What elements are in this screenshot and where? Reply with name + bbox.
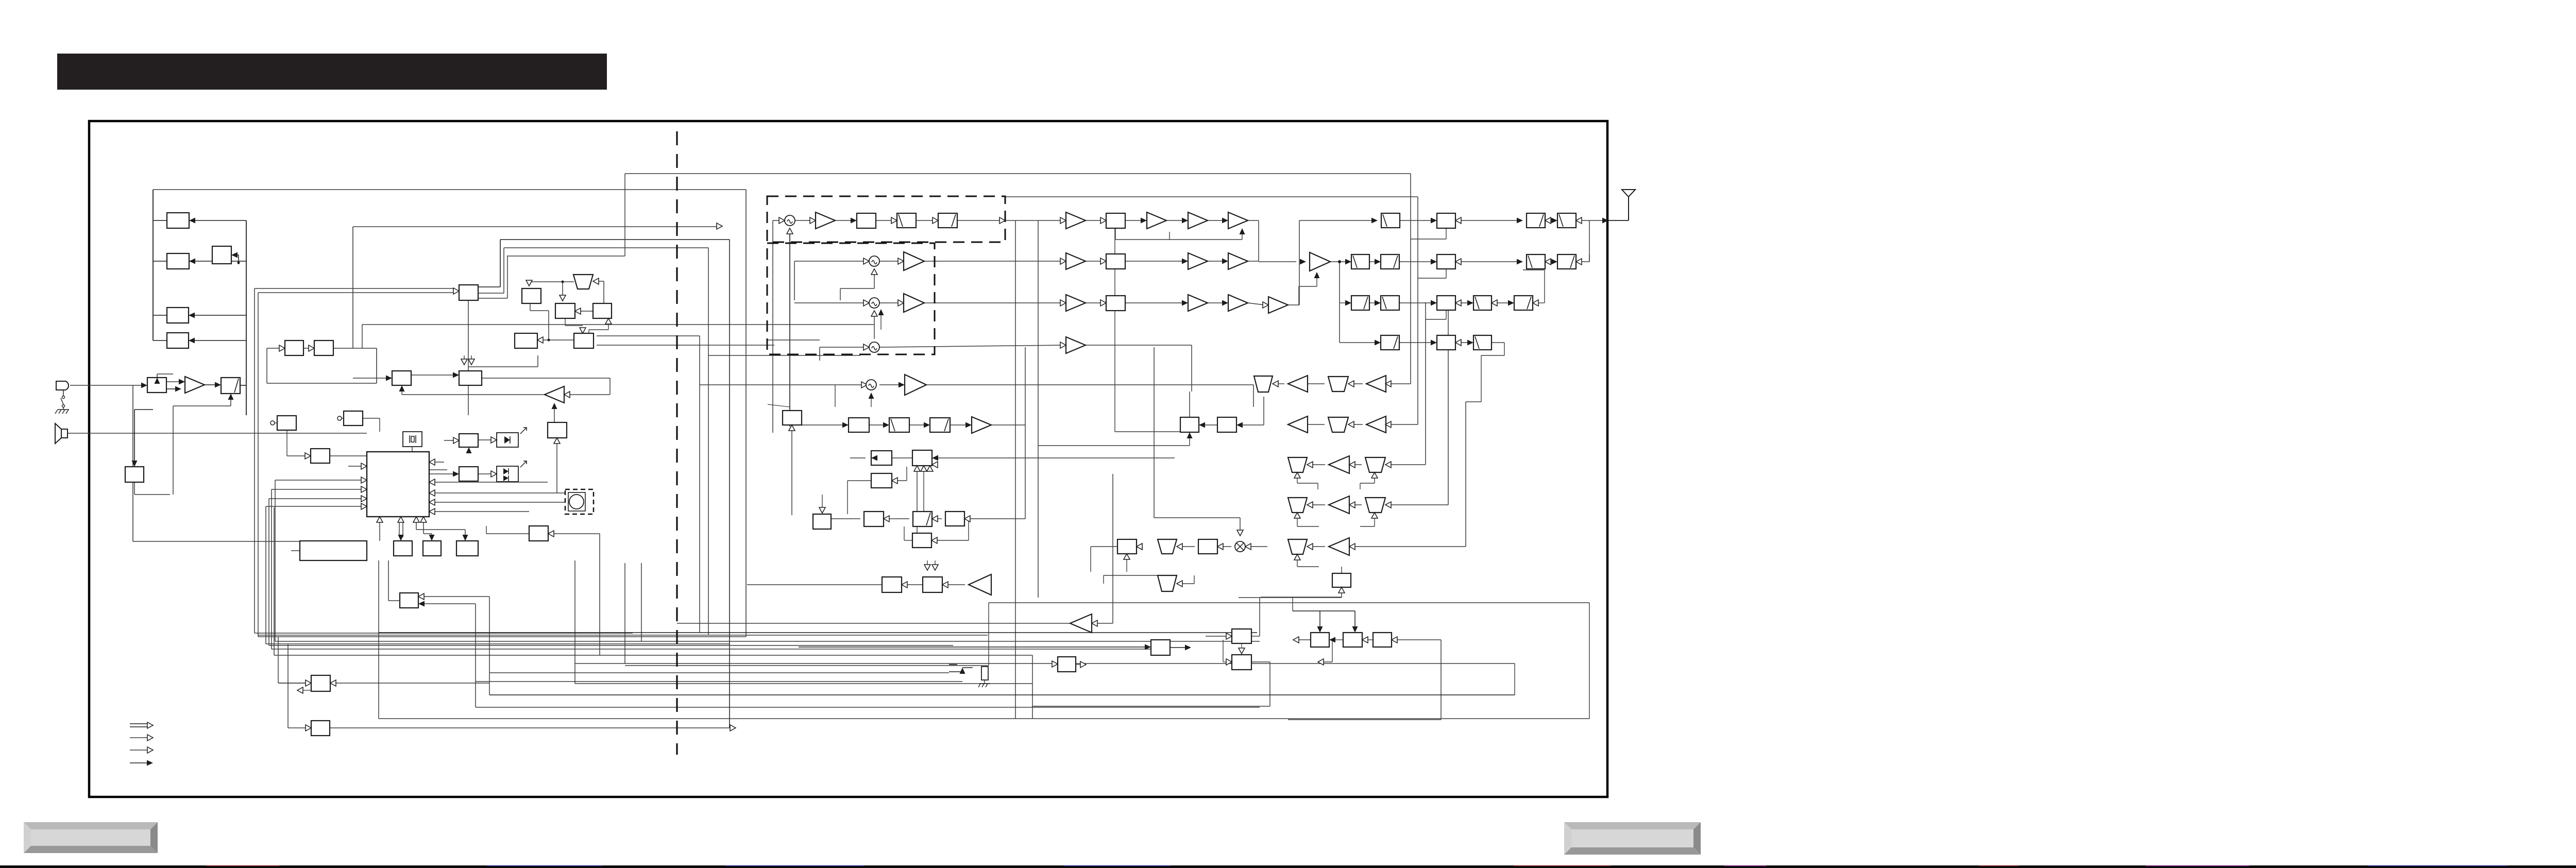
amplifier if1 — [905, 375, 926, 395]
filter S2b — [913, 512, 932, 526]
wire — [486, 526, 487, 534]
wire — [134, 482, 135, 495]
arrow — [819, 507, 825, 513]
wire — [767, 339, 820, 341]
wire — [1103, 575, 1104, 584]
wire — [1355, 464, 1362, 465]
open arrowhead — [892, 478, 897, 484]
open arrowhead mid — [717, 223, 722, 229]
wire pin — [429, 469, 447, 470]
wire — [581, 311, 593, 312]
arrowhead — [1508, 300, 1514, 306]
wire — [1411, 239, 1446, 240]
wire — [63, 407, 64, 410]
wire vertical x2160 — [1112, 474, 1113, 623]
open arrowhead — [891, 217, 897, 224]
open arrowhead — [526, 280, 532, 286]
wire vertical x1213 — [624, 563, 625, 663]
wire — [1399, 302, 1433, 303]
open arrowhead — [1455, 300, 1461, 306]
wire — [948, 584, 965, 585]
block det1 — [1117, 539, 1137, 554]
wire — [1086, 302, 1103, 303]
wire — [411, 375, 455, 376]
wire — [1335, 639, 1343, 640]
block D5 — [574, 333, 594, 348]
wire — [1248, 261, 1259, 262]
wire — [1169, 232, 1170, 240]
arrowhead pa bias — [1314, 272, 1320, 278]
block detector — [1437, 335, 1455, 350]
arrowhead — [1467, 300, 1473, 306]
wire — [991, 424, 1025, 426]
block G1 trimmer — [277, 416, 296, 430]
arrowhead M3 in — [878, 309, 884, 315]
wire vertical x2738 — [1410, 174, 1411, 384]
open arrowhead — [1052, 661, 1058, 667]
mixer det X — [1235, 541, 1245, 552]
arrow — [921, 466, 927, 471]
block A2 bias — [548, 422, 567, 438]
arrow — [1145, 644, 1151, 650]
arrowhead — [189, 218, 195, 224]
wire — [1446, 228, 1447, 239]
wire lo stub — [835, 385, 836, 407]
open arrowhead — [1177, 581, 1182, 587]
legend open arrowhead — [147, 735, 153, 741]
pin arrow IC1 bottom — [420, 517, 427, 522]
wire — [423, 522, 424, 534]
wire — [907, 584, 923, 585]
filter apc3 — [1473, 296, 1492, 310]
arrowhead — [1182, 218, 1188, 224]
wire bundle y1323 — [476, 681, 962, 682]
open arrowhead — [580, 328, 586, 333]
block connector strip — [300, 541, 367, 560]
arrowhead — [899, 382, 905, 388]
wire — [1297, 566, 1319, 567]
wire — [133, 385, 144, 386]
wire — [1399, 342, 1433, 343]
arrowhead — [141, 383, 147, 388]
wire — [548, 311, 549, 340]
wire — [1090, 547, 1091, 572]
open arrowhead — [453, 288, 459, 294]
amplifier rx4 — [1366, 416, 1386, 433]
wire — [1125, 220, 1143, 221]
wire vertical x1448 — [745, 190, 747, 637]
open arrowhead — [1338, 587, 1345, 593]
open arrowhead — [933, 217, 938, 224]
wire — [1243, 424, 1264, 426]
wire — [1374, 478, 1375, 483]
wire — [1308, 424, 1325, 425]
mixer M1 — [785, 215, 795, 226]
wire — [267, 348, 279, 349]
wire — [205, 384, 217, 385]
wire — [342, 418, 344, 419]
block pa module — [1437, 254, 1455, 269]
block AB3 — [1373, 633, 1392, 647]
wire — [874, 316, 875, 339]
open arrowhead — [1060, 342, 1066, 348]
arrowhead — [386, 376, 392, 381]
wire — [1391, 504, 1448, 505]
wire — [789, 407, 790, 425]
input port circle — [270, 421, 275, 425]
wire — [819, 347, 820, 361]
arrowhead — [871, 455, 877, 461]
bus vertical x516 — [265, 506, 266, 644]
wire — [917, 471, 918, 533]
open arrowhead — [491, 437, 497, 443]
wire — [1086, 261, 1103, 262]
arrowhead — [1431, 340, 1437, 346]
arrowhead — [429, 535, 435, 541]
arrowhead — [228, 394, 234, 400]
arrow — [461, 359, 467, 365]
wire — [1461, 261, 1519, 262]
wire — [153, 340, 167, 341]
arrowhead — [1329, 637, 1335, 643]
arrowhead M5 lo — [869, 393, 874, 399]
arrowhead — [851, 218, 857, 224]
open arrowhead — [575, 308, 581, 314]
open arrowhead y1413 — [730, 725, 736, 731]
wire — [1208, 220, 1225, 221]
wire — [1340, 302, 1348, 303]
wire — [303, 690, 311, 691]
wire vertical x735 — [378, 560, 379, 719]
wire mixer M1 lo input — [789, 234, 790, 427]
wire — [157, 373, 173, 375]
wire bundle y1395 — [379, 718, 1589, 719]
filter rx1 — [1328, 377, 1348, 392]
wire — [486, 533, 529, 534]
open arrowhead — [1545, 259, 1551, 265]
filter funnel T1 — [573, 275, 593, 289]
switch S2 — [949, 665, 973, 672]
open arrowhead — [1226, 633, 1232, 639]
arrow — [1294, 513, 1300, 518]
open arrowhead — [1385, 421, 1391, 428]
arrowhead — [842, 422, 849, 428]
wire AA top stub — [1341, 567, 1342, 573]
wire — [529, 282, 530, 283]
wire — [303, 348, 309, 349]
wire bundle y1288 — [575, 663, 1515, 664]
arrow out — [1318, 659, 1324, 665]
wire — [1461, 302, 1470, 303]
open arrowhead — [1100, 300, 1106, 306]
filter pll — [1158, 575, 1177, 591]
amplifier mod10 — [1066, 337, 1086, 353]
wire — [938, 457, 1175, 458]
wire — [1251, 546, 1267, 547]
amplifier audio out — [1070, 614, 1092, 633]
block vco 1 — [285, 341, 303, 355]
filter rx2 — [1328, 417, 1348, 432]
microphone MIC1 — [56, 381, 69, 390]
wire vertical x1971 — [1015, 220, 1016, 719]
wire — [424, 596, 489, 597]
wire — [1189, 438, 1190, 446]
wire step3 up x1213 — [624, 174, 625, 256]
arrowhead — [398, 535, 404, 541]
arrow — [1137, 543, 1142, 550]
arrowhead — [189, 338, 195, 344]
wire — [189, 340, 246, 341]
wire — [1330, 261, 1348, 262]
bus line h y1236 — [258, 636, 746, 637]
wire — [231, 254, 239, 256]
wire — [840, 288, 874, 289]
wire — [1297, 560, 1298, 567]
arrow — [468, 359, 474, 365]
wire — [189, 261, 246, 262]
filter apc1 — [1351, 296, 1369, 310]
amplifier rx7 — [1329, 538, 1349, 555]
wire loop top — [1104, 575, 1158, 576]
arrowhead — [1182, 300, 1188, 306]
wire — [1551, 261, 1554, 262]
wire — [1340, 342, 1377, 343]
wire long y1413 — [330, 727, 732, 728]
open arrowhead — [1385, 462, 1391, 468]
wire — [747, 584, 882, 585]
block keypad if — [167, 308, 189, 323]
wire — [874, 275, 875, 288]
wire — [1374, 518, 1375, 526]
dashed block modulator group A — [767, 196, 1005, 242]
bus vertical x522 — [268, 499, 269, 645]
block G2 ref osc — [344, 411, 363, 426]
wire bundle y1292 — [625, 665, 989, 666]
wire — [1299, 261, 1302, 262]
open arrowhead — [898, 300, 904, 306]
wire step1 v — [500, 240, 501, 287]
wire — [288, 727, 306, 728]
arrowhead — [453, 471, 459, 477]
arrow — [927, 466, 933, 471]
wire — [790, 424, 845, 426]
block vco 2 — [314, 341, 333, 355]
block S1 — [813, 514, 831, 529]
wire — [1369, 261, 1377, 262]
wire — [552, 533, 600, 534]
wire — [1297, 518, 1298, 526]
amplifier pa driver — [1310, 252, 1330, 271]
pin arrow IC1 left — [361, 486, 367, 492]
wire — [1115, 228, 1116, 240]
arrow out — [1185, 645, 1191, 651]
filter antenna3 — [1557, 213, 1576, 228]
open arrowhead — [1455, 339, 1461, 346]
wire — [1504, 343, 1505, 355]
wire — [927, 560, 928, 565]
wire — [1354, 611, 1355, 626]
wire — [599, 281, 604, 282]
filter block AF — [221, 378, 240, 394]
arrowhead — [155, 378, 160, 384]
wire step2 down x1375 — [708, 248, 709, 635]
arrowhead — [1236, 422, 1243, 428]
block power sw — [125, 467, 144, 482]
arrowhead — [1517, 218, 1523, 224]
wire bundle y1253 — [269, 645, 953, 646]
previous page button — [24, 822, 158, 853]
filter if3 — [930, 418, 950, 432]
open arrowhead — [932, 516, 938, 522]
wire top bus horizontal — [153, 189, 746, 190]
wire bundle y1373 — [476, 707, 1260, 708]
speaker SP1 — [55, 423, 67, 444]
wire — [278, 637, 279, 683]
filter tx2 — [897, 213, 916, 228]
wire — [1368, 639, 1373, 640]
filter rx5 — [1288, 498, 1307, 513]
block antenna switch — [1437, 213, 1455, 228]
arrowhead — [1222, 259, 1228, 264]
wire — [1426, 319, 1446, 320]
wire pin — [429, 473, 453, 474]
wire — [1299, 639, 1311, 640]
wire — [423, 533, 432, 534]
wire — [478, 439, 491, 440]
wire vertical x258 — [132, 385, 133, 541]
filter apc2 — [1381, 296, 1399, 310]
wire — [588, 330, 589, 333]
wire — [1299, 220, 1374, 221]
open arrowhead — [1217, 543, 1223, 550]
block AB1 — [1311, 633, 1329, 647]
arrowhead — [1345, 259, 1351, 265]
wire — [363, 418, 380, 419]
wire — [1126, 559, 1127, 572]
pin arrow IC1 bottom — [398, 517, 404, 522]
open arrowhead — [942, 582, 948, 588]
open arrowhead — [429, 490, 435, 496]
block AB2 — [1343, 633, 1362, 647]
next page button — [1564, 822, 1701, 855]
open arrowhead — [1533, 300, 1538, 306]
battery BT1 — [981, 667, 988, 680]
wire — [482, 378, 610, 379]
wire — [1091, 546, 1104, 547]
buzzer BZ1 dashed box — [565, 489, 594, 514]
wire vertical x2875 — [1481, 355, 1482, 402]
arrow — [914, 466, 920, 471]
wire — [820, 347, 866, 348]
wire — [904, 540, 912, 541]
open arrowhead — [1348, 381, 1354, 387]
wire — [589, 329, 608, 330]
arrowhead — [1467, 340, 1473, 346]
bottom page edge bar — [0, 865, 2576, 868]
block Z1 — [1151, 640, 1170, 655]
wire long — [334, 683, 489, 684]
wire — [1223, 546, 1231, 547]
wire — [435, 511, 529, 512]
wire — [1125, 302, 1184, 303]
wire — [795, 220, 812, 221]
wire — [556, 444, 557, 493]
block apc — [1437, 296, 1455, 310]
buzzer BZ1 — [568, 492, 585, 511]
wire D5 out upper — [597, 335, 700, 336]
wire — [1278, 383, 1284, 384]
wire — [287, 455, 307, 456]
wire — [1208, 302, 1225, 303]
block small regulator — [212, 246, 231, 264]
wire — [1115, 239, 1170, 240]
wire — [1360, 483, 1375, 484]
filter det fwd — [1381, 335, 1399, 350]
mixer M2 — [869, 256, 879, 266]
bus vertical x527 — [271, 489, 272, 649]
block det2 — [1198, 539, 1217, 554]
wire — [1582, 220, 1604, 221]
arrow — [1317, 626, 1323, 633]
legend open arrowhead — [147, 747, 153, 753]
wire step3 h — [507, 256, 625, 257]
wire — [1446, 310, 1447, 319]
wire — [1298, 286, 1299, 305]
arrowhead — [463, 535, 468, 541]
open arrowhead — [1385, 502, 1391, 508]
scan noise dashes — [206, 865, 2507, 866]
wire — [1397, 639, 1441, 640]
title bar — [57, 54, 607, 90]
open arrowhead — [902, 582, 907, 588]
wire — [1104, 546, 1117, 547]
wire — [475, 604, 476, 707]
wire — [1360, 483, 1361, 489]
open arrowhead — [537, 337, 543, 343]
wire — [1261, 597, 1342, 598]
bus line pair outer v — [254, 288, 255, 633]
block D2 — [555, 303, 575, 318]
wire — [1182, 583, 1194, 584]
wire U1 top — [1189, 392, 1190, 417]
wire — [1115, 431, 1180, 432]
wire — [1292, 598, 1293, 611]
open arrowhead — [787, 228, 793, 234]
wire to buzzer2 — [435, 502, 565, 503]
block H1 — [392, 371, 411, 385]
block AA1 — [1332, 573, 1351, 587]
bus line h y1250 — [266, 643, 730, 644]
microcontroller IC1 — [367, 452, 429, 517]
wire y1051 to connector strip — [133, 541, 300, 542]
wire crystal to IC — [412, 447, 413, 452]
arrow — [1352, 626, 1358, 633]
wire vertical x336 — [173, 406, 174, 495]
wire — [424, 603, 476, 604]
wire — [950, 424, 968, 426]
open arrowhead — [564, 392, 570, 398]
wire bundle y1349 — [489, 694, 1515, 695]
arrowhead — [215, 382, 221, 388]
arrowhead — [883, 422, 889, 428]
wire — [388, 560, 389, 601]
wire — [791, 431, 792, 515]
open arrowhead — [1060, 300, 1066, 306]
wire vertical x685 — [352, 227, 353, 348]
main diagram frame — [89, 121, 1607, 797]
wire — [924, 302, 1062, 303]
wire — [1259, 261, 1296, 262]
